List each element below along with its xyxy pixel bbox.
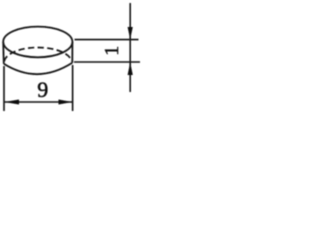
svg-text:1: 1 — [101, 46, 123, 56]
svg-text:9: 9 — [37, 77, 48, 102]
